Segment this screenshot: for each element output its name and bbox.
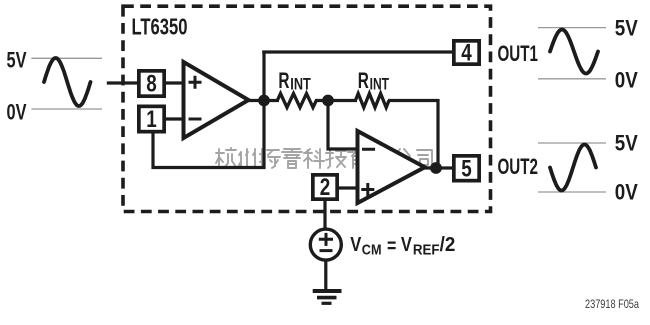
- svg-text:5: 5: [461, 156, 472, 183]
- svg-text:0V: 0V: [615, 67, 638, 92]
- svg-text:INT: INT: [370, 74, 390, 93]
- svg-text:=: =: [387, 235, 396, 257]
- svg-text:LT6350: LT6350: [132, 14, 188, 40]
- svg-text:4: 4: [461, 40, 472, 67]
- svg-text:0V: 0V: [7, 100, 27, 125]
- svg-text:R: R: [358, 68, 369, 93]
- svg-text:CM: CM: [362, 242, 382, 259]
- svg-text:5V: 5V: [615, 15, 638, 40]
- svg-text:1: 1: [146, 106, 157, 133]
- svg-text:/2: /2: [440, 234, 456, 256]
- svg-text:V: V: [350, 234, 362, 256]
- svg-text:REF: REF: [413, 242, 440, 259]
- svg-text:0V: 0V: [615, 180, 638, 205]
- svg-text:OUT1: OUT1: [498, 41, 539, 66]
- svg-text:INT: INT: [290, 74, 311, 93]
- svg-text:OUT2: OUT2: [498, 154, 539, 179]
- svg-text:5V: 5V: [615, 131, 638, 156]
- svg-text:8: 8: [146, 71, 157, 98]
- svg-text:V: V: [401, 234, 413, 256]
- svg-text:5V: 5V: [7, 48, 27, 73]
- svg-text:2: 2: [320, 174, 331, 201]
- svg-text:R: R: [278, 68, 289, 93]
- svg-text:237918 F05a: 237918 F05a: [585, 297, 639, 311]
